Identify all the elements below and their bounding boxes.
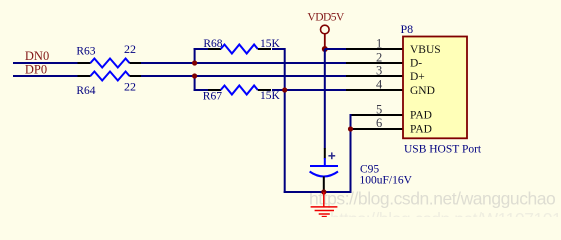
wire DP0 to connector [141, 75, 346, 77]
svg-text:P8: P8 [401, 22, 414, 36]
svg-text:R63: R63 [76, 46, 95, 58]
ground symbol [311, 192, 338, 217]
junction on DP0 at R67 branch [192, 73, 197, 78]
junction VDD with pin1 wire [322, 46, 328, 52]
resistor R67 right pin [258, 89, 271, 91]
connector pin 1 lead [346, 48, 403, 50]
connector pin 4 lead [346, 89, 403, 91]
capacitor C95 plus sign [328, 152, 335, 159]
junction PAD vertical with pin6 [348, 126, 353, 131]
connector P8 box [403, 37, 467, 139]
svg-text:4: 4 [376, 78, 383, 92]
resistor R67 left pin [208, 89, 221, 91]
svg-text:2: 2 [376, 50, 382, 64]
svg-text:22: 22 [124, 42, 136, 56]
junction GND bus with pin4 row [282, 87, 287, 92]
svg-text:100uF/16V: 100uF/16V [360, 175, 413, 187]
capacitor C95 bottom plate arc [310, 172, 338, 177]
capacitor C95 top pin [324, 148, 326, 159]
connector pin 3 lead [346, 75, 403, 77]
connector pin 2 lead [346, 62, 403, 64]
wire R68 branch left [194, 48, 209, 50]
wire VDD vertical down to capacitor [324, 49, 326, 149]
svg-text:VBUS: VBUS [410, 44, 441, 56]
svg-text:PAD: PAD [410, 110, 432, 122]
resistor R64 left pin [78, 75, 91, 77]
svg-text:D+: D+ [410, 71, 425, 83]
wire R67 branch vertical [194, 76, 196, 91]
wire DN0 to connector [141, 62, 346, 64]
junction ground node [321, 189, 326, 194]
wire R67 branch left [194, 89, 209, 91]
wire DP0 left segment [13, 75, 78, 77]
wire PAD vertical [350, 114, 352, 193]
resistor R63 body [90, 59, 129, 68]
svg-text:DN0: DN0 [25, 49, 49, 63]
svg-text:5: 5 [376, 102, 382, 116]
power port VDD5V stem [324, 34, 326, 50]
resistor R67 body [221, 86, 258, 95]
power port VDD5V circle [321, 25, 330, 34]
svg-text:22: 22 [124, 80, 136, 94]
svg-text:1: 1 [376, 37, 382, 51]
resistor R63 left pin [78, 62, 91, 64]
resistor R64 body [90, 72, 129, 81]
junction on DN0 at R68 branch [192, 60, 197, 65]
wire R68 right to corner [272, 48, 285, 50]
resistor R68 body [221, 45, 258, 54]
svg-text:https://blog.csdn.net/W1107101: https://blog.csdn.net/W11071010 [330, 209, 561, 217]
capacitor C95 bottom pin [323, 177, 325, 193]
svg-text:DP0: DP0 [25, 62, 47, 76]
capacitor C95 top plate [310, 165, 338, 167]
connector pin 5 lead [351, 114, 404, 116]
svg-text:3: 3 [376, 64, 382, 78]
wire DN0 left segment [13, 62, 78, 64]
svg-text:VDD5V: VDD5V [307, 12, 345, 24]
svg-text:6: 6 [376, 116, 382, 130]
resistor R68 right pin [258, 48, 271, 50]
wire GND row to connector [272, 89, 346, 91]
connector pin 6 lead [351, 128, 404, 130]
svg-text:R67: R67 [203, 91, 222, 103]
resistor R68 left pin [208, 48, 221, 50]
svg-text:R64: R64 [76, 85, 95, 97]
svg-text:15K: 15K [260, 90, 281, 102]
svg-text:D-: D- [410, 58, 422, 70]
resistor R64 right pin [130, 75, 143, 77]
svg-text:PAD: PAD [410, 123, 432, 135]
wire R68 branch vertical [194, 48, 196, 63]
svg-text:USB HOST Port: USB HOST Port [404, 144, 482, 156]
resistor R63 right pin [130, 62, 143, 64]
wire bottom ground run [284, 191, 352, 193]
svg-text:GND: GND [410, 85, 435, 97]
wire vertical GND bus x=284.7 [284, 48, 286, 193]
wire pin1 from VDD junction [325, 48, 346, 50]
